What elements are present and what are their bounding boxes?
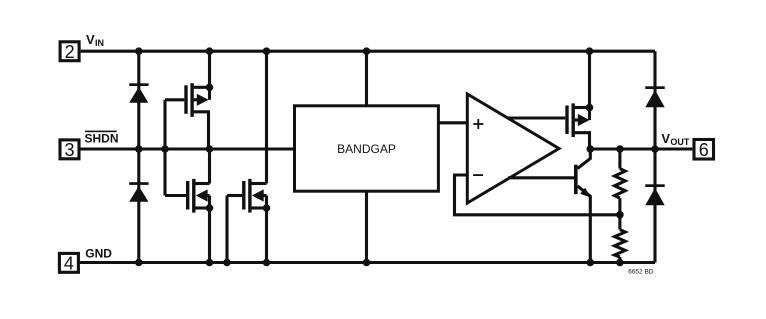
svg-text:6: 6 <box>699 140 709 160</box>
svg-text:OUT: OUT <box>670 137 690 147</box>
wire bottom GND rail <box>80 261 655 264</box>
transistor Q1 NPN <box>574 149 591 263</box>
node dot VOUT node <box>587 145 595 153</box>
node dot M2 source/bulk <box>206 204 214 212</box>
diode D2 (SHDN to GND clamp) <box>129 182 148 202</box>
diode D3 (VIN to VOUT clamp) <box>645 86 664 107</box>
node dot VIN/M4 column <box>586 47 594 55</box>
label VOUT <box>661 131 690 147</box>
node dot VIN/diode column <box>135 47 143 55</box>
pin 2 box <box>60 42 79 62</box>
node dot M4 drain/bulk <box>586 104 594 112</box>
block BANDGAP <box>295 106 439 191</box>
node dot GND/R2 <box>616 259 624 267</box>
diode D4 (VOUT to GND clamp) <box>645 184 664 205</box>
wire top VIN rail <box>81 50 655 53</box>
label VIN <box>86 32 104 48</box>
wire VOUT row <box>590 147 692 150</box>
node dot GND/bandgap <box>363 259 371 267</box>
wire bandgap bottom to GND <box>365 191 368 262</box>
node dot VIN/M1 column <box>206 47 214 55</box>
svg-text:GND: GND <box>85 247 112 261</box>
transistor M1 PMOS <box>165 51 210 149</box>
node dot GND/Q1 emitter <box>587 259 595 267</box>
node dot M1 drain/bulk <box>206 84 214 92</box>
node dot GND/diode column <box>135 259 143 267</box>
label SHDN with overline <box>85 131 119 146</box>
svg-text:3: 3 <box>64 140 74 160</box>
node dot SHDN/diode column <box>135 145 143 153</box>
pin 3 box <box>60 140 79 160</box>
svg-text:BANDGAP: BANDGAP <box>337 142 396 156</box>
node dot VOUT/diode column <box>651 145 659 153</box>
node dot M3 source/bulk <box>263 204 271 212</box>
node dot GND/M2 column <box>206 259 214 267</box>
svg-text:6652 BD: 6652 BD <box>628 269 654 276</box>
wire op-amp to Q1 base <box>508 176 574 179</box>
svg-text:2: 2 <box>65 42 75 62</box>
svg-text:IN: IN <box>95 38 104 48</box>
node dot VIN/M3 column <box>263 47 271 55</box>
svg-text:4: 4 <box>64 254 74 274</box>
node dot M3 gate/GND <box>223 259 231 267</box>
svg-text:V: V <box>86 32 95 47</box>
transistor M4 PMOS pass device <box>565 51 589 149</box>
wire feedback minus input <box>455 175 620 215</box>
pin 6 box <box>694 140 714 160</box>
svg-text:V: V <box>661 131 670 146</box>
wire right diode column <box>653 51 656 262</box>
node dot GND/M3 column <box>263 259 271 267</box>
wire bandgap to op-amp plus input <box>438 121 468 124</box>
transistor M3 NMOS <box>227 51 267 262</box>
op-amp U1 <box>467 94 559 203</box>
wire gates vertical (SHDN to M1/M2 gates) <box>163 100 166 196</box>
resistor R2 <box>615 215 626 263</box>
resistor R1 <box>615 149 626 215</box>
svg-text:SHDN: SHDN <box>85 131 119 145</box>
wire left diode column <box>137 51 140 262</box>
node dot VIN/bandgap <box>363 47 371 55</box>
wire SHDN row <box>80 147 294 150</box>
node dot SHDN/M1-M2 column <box>206 145 214 153</box>
wire bandgap top to VIN <box>365 51 368 106</box>
label GND <box>85 247 112 261</box>
diode D1 (VIN to SHDN clamp) <box>129 83 148 102</box>
pin 4 box <box>59 253 78 273</box>
node dot feedback/R1-R2 <box>616 211 624 219</box>
transistor M2 NMOS <box>165 149 210 263</box>
wire op-amp to M4 gate <box>508 116 565 119</box>
node dot VOUT/R1 <box>616 145 624 153</box>
node dot SHDN/gates vertical <box>161 145 169 153</box>
